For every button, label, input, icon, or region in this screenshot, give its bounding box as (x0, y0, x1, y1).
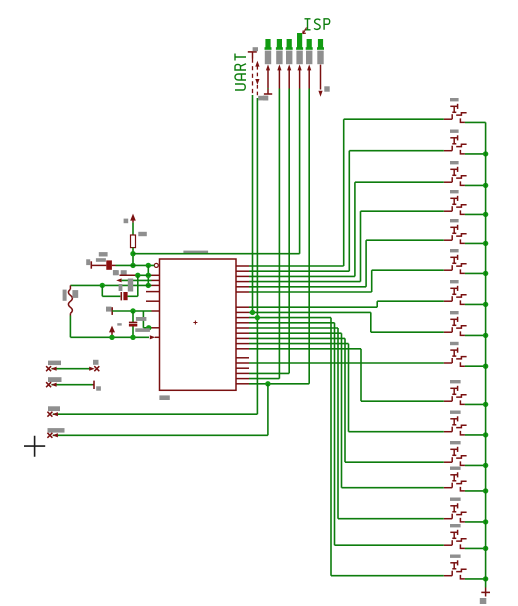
IC pin stub left (152, 284, 160, 286)
junction row4 at x102 (100, 283, 105, 288)
IC pin stub right B4 (236, 322, 249, 324)
switch S2 button (450, 137, 458, 139)
switch S10 pin 2 (460, 400, 465, 404)
label Q1 (63, 290, 67, 301)
label W1 (48, 361, 61, 366)
pin J4 direction arrow (298, 64, 302, 70)
switch S8 label (450, 311, 459, 314)
switch S5 contacts (451, 235, 453, 240)
wire IC C5 to header J2 (249, 378, 279, 380)
wire S14 to bus (465, 521, 486, 523)
IC pin stub left XTAL2 (146, 300, 160, 302)
T-bar W2 right (93, 381, 95, 389)
switch S4 pin 1 (444, 210, 452, 212)
junction C6 branch (265, 381, 270, 386)
capacitor C1 (106, 260, 112, 269)
UART pin 1 T-bar (248, 51, 257, 53)
switch S10 label (450, 380, 461, 383)
wire S4 to bus (465, 213, 486, 215)
IC pin stub right C2 (236, 362, 249, 364)
wire S12 to bus (465, 464, 486, 466)
label at UART pin 2 (258, 96, 263, 101)
wire C2 right lead (128, 295, 138, 297)
junction bus at S15 (483, 546, 488, 551)
switch S5 pin 2 (460, 239, 465, 243)
bus end pin (485, 588, 487, 597)
pin J3 direction arrow (287, 64, 291, 70)
IC pin stub right A6 (236, 291, 249, 293)
wire S10 to bus (465, 403, 486, 405)
crystal Q1 (69, 285, 71, 289)
ISP origin arrow (303, 28, 307, 34)
label at W1 right (93, 360, 99, 365)
switch S16 label (450, 555, 461, 558)
wire J1 to supply tab (267, 87, 269, 90)
label at J1 tab (263, 96, 268, 101)
wire IC B6 to switch S13 (249, 332, 342, 334)
switch S11 pin 2 (460, 431, 465, 435)
wire J5 down to IC pin PC6 (308, 89, 310, 384)
IC pin stub right C4 (236, 372, 249, 374)
switch S4 label (450, 190, 459, 193)
wire J4 down to RESET rail (299, 89, 301, 254)
IC pin stub right C6 (236, 383, 249, 385)
switch S4 pin 2 (460, 210, 465, 214)
wire IC C6 to header J5 (249, 383, 309, 385)
capacitor C2 (120, 292, 122, 300)
label pointer at C1 (113, 270, 118, 275)
switch S9 label (450, 342, 459, 345)
switch S9 pin 1 (444, 362, 452, 364)
junction bottom rail at C3 (130, 335, 135, 340)
wire C1 to IC RESET pin (116, 264, 155, 266)
switch S12 pin 1 (444, 461, 452, 463)
wire IC C4 to header J3 (249, 372, 289, 374)
switch S12 button (450, 448, 458, 450)
pin J1 direction arrow (266, 64, 270, 70)
switch S1 pin 1 (444, 118, 452, 120)
label VCC1 (124, 219, 129, 224)
label ISP (305, 19, 330, 30)
wire S16 to bus (465, 578, 486, 580)
wire S9 to bus (465, 365, 486, 367)
wire IC A6 to switch S6 (249, 291, 372, 293)
wire row3 to IC (122, 279, 152, 281)
switch S3 pin 1 (444, 181, 452, 183)
net arrow row3 (116, 278, 121, 282)
IC pin stub right B6 (236, 332, 249, 334)
switch S15 pin 1 (444, 544, 452, 546)
IC pin stub right B9 (236, 348, 249, 350)
switch S11 pin 1 (444, 431, 452, 433)
wire IC A4 to switch S4 (249, 281, 361, 283)
switch S10 contacts (451, 396, 453, 401)
junction GND row at C3 (130, 308, 135, 313)
switch S6 label (450, 249, 459, 252)
junction bus at S5 (483, 241, 488, 246)
wire RESET rail to header J4 (133, 253, 300, 255)
switch S4 button (450, 197, 458, 199)
switch S16 pin 1 (444, 575, 452, 577)
IC pin stub right A3 (236, 275, 249, 277)
switch S11 contacts (451, 427, 453, 432)
label near pin row2 b (121, 270, 127, 275)
label C1 (99, 252, 108, 256)
junction bus at S6 (483, 271, 488, 276)
switch S14 pin 1 (444, 518, 452, 520)
supply arrow VCC1 (130, 214, 136, 221)
connector pin J5 (header pin) (307, 39, 312, 48)
junction bottom rail at VCC2 (109, 335, 114, 340)
switch S13 button (450, 474, 458, 476)
ground GND1 (86, 259, 90, 265)
switch S5 button (450, 226, 458, 228)
wire IC A2 to switch S2 (249, 270, 349, 272)
junction x148 row4 (146, 283, 151, 288)
wire IC B8 to switch S11 (249, 343, 349, 345)
switch S7 contacts (451, 296, 453, 301)
switch S6 button (450, 256, 458, 258)
wire S3 to bus (465, 184, 486, 186)
wire IC A3 to switch S3 (249, 275, 355, 277)
wire bottom rail to IC (70, 336, 149, 338)
wire row2 (XTAL cap to IC) (120, 274, 138, 276)
wire IC A1 to switch S1 (249, 265, 344, 267)
pin arrow into IC bottom-left (150, 335, 155, 339)
wire IC B2 to switch S8 (249, 311, 371, 313)
wire UART2 down to flag wire W3 (256, 98, 258, 414)
junction bus at S16 (483, 576, 488, 581)
switch S2 label (450, 130, 459, 133)
switch S5 pin 1 (444, 239, 452, 241)
label W4 (48, 428, 65, 433)
switch S3 label (450, 161, 459, 164)
wire C6 branch down to flag wire W4 (267, 384, 269, 436)
switch S10 button (450, 387, 458, 389)
label VCC2 (117, 323, 121, 325)
junction UART2 on B3 (255, 315, 260, 320)
wire IC B1 to switch S7 (249, 306, 377, 308)
IC pin stub right B8 (236, 343, 249, 345)
switch S3 pin 2 (460, 181, 465, 185)
switch S11 button (450, 418, 458, 420)
switch S6 contacts (451, 265, 453, 270)
net flag W2 left (46, 382, 51, 387)
wire R1 to RESET net (132, 248, 134, 266)
label at W2 right (96, 386, 101, 390)
wire GND row to IC (112, 310, 151, 312)
pin J6 direction arrow (320, 65, 322, 90)
pin J5 direction arrow (307, 64, 311, 70)
IC pin stub right A2 (236, 270, 249, 272)
switch S14 label (450, 498, 461, 501)
UART pin 1 stem (252, 52, 254, 59)
wire S1 to bus (465, 121, 486, 123)
connector pin J1 (header pin) (265, 39, 270, 48)
junction row8 (146, 325, 151, 330)
label C2 a (119, 284, 123, 291)
connector pin J6 (header pin) (318, 39, 323, 48)
switch S16 button (450, 562, 458, 564)
wire C2 left lead (101, 285, 103, 296)
wire S11 to bus (465, 434, 486, 436)
IC pin stub right C1 (236, 357, 249, 359)
switch S5 label (450, 219, 459, 222)
junction bus at S7 (483, 302, 488, 307)
wire S7 to bus (465, 303, 486, 305)
switch S2 pin 2 (460, 150, 465, 154)
resistor R1 (131, 235, 136, 248)
switch S13 pin 2 (460, 487, 465, 491)
switch S7 pin 2 (460, 300, 465, 304)
junction bus at S9 (483, 364, 488, 369)
wire S8 to bus (465, 334, 486, 336)
wire IC B4 to switch S15 (249, 322, 335, 324)
junction bus at S8 (483, 333, 488, 338)
wire W3 (UART RX net) (53, 413, 258, 415)
switch S4 contacts (451, 206, 453, 211)
switch S14 button (450, 505, 458, 507)
wire S13 to bus (465, 490, 486, 492)
IC pin stub right B7 (236, 337, 249, 339)
switch S8 pin 1 (444, 331, 452, 333)
label UART (235, 54, 246, 91)
junction x148 row2 (146, 273, 151, 278)
label C3 value (135, 328, 150, 332)
wire S6 to bus (465, 272, 486, 274)
label Q1 value (72, 290, 78, 298)
wire common bus vertical (485, 122, 487, 587)
switch S15 pin 2 (460, 544, 465, 548)
IC pin stub right C3 (236, 367, 249, 369)
switch S1 pin 2 (460, 118, 465, 122)
switch S6 pin 2 (460, 269, 465, 273)
switch S10 pin 1 (444, 400, 452, 402)
switch S8 contacts (451, 327, 453, 332)
wire S2 to bus (465, 153, 486, 155)
wire J3 down to IC pin PC4 (288, 89, 290, 374)
IC pin stub left (152, 274, 160, 276)
wire IC B7 to switch S12 (249, 337, 345, 339)
IC pin RESET bubble (154, 263, 158, 267)
switch S15 contacts (451, 540, 453, 545)
junction bus at S3 (483, 183, 488, 188)
wire S15 to bus (465, 547, 486, 549)
label C2 b (128, 279, 133, 292)
switch S12 contacts (451, 457, 453, 462)
wire W2 (52, 384, 93, 386)
label C1 value (96, 258, 106, 262)
switch S15 label (450, 524, 461, 527)
label R1 (138, 232, 147, 236)
label at UART pin 1 (253, 47, 258, 51)
switch S11 label (450, 411, 461, 414)
switch S3 contacts (451, 177, 453, 182)
wire W1 (52, 368, 92, 370)
junction bus at S13 (483, 488, 488, 493)
IC pin stub right B1 (236, 306, 249, 308)
label W2 (48, 377, 62, 382)
wire IC B5 to switch S14 (249, 327, 338, 329)
IC pin stub right B3 (236, 317, 249, 319)
switch S1 button (450, 105, 458, 107)
switch S8 button (450, 318, 458, 320)
junction bus at S12 (483, 463, 488, 468)
capacitor C3 (132, 311, 134, 322)
switch S9 pin 2 (460, 362, 465, 366)
switch S3 button (450, 168, 458, 170)
switch S7 pin 1 (444, 300, 452, 302)
switch S1 label (450, 98, 459, 101)
label near pin row2 a (113, 270, 119, 275)
IC pin stub right B2 (236, 311, 249, 313)
wire S5 to bus (465, 242, 486, 244)
UART pin 2 up arrow (255, 61, 259, 67)
switch S2 contacts (451, 146, 453, 151)
switch S9 button (450, 349, 458, 351)
label GND flag at J6 (324, 86, 329, 91)
wire VCC1 to resistor R1 (132, 223, 134, 235)
wire UART1 down to IC pin PD0 (252, 95, 254, 312)
switch S9 contacts (451, 358, 453, 363)
IC pin stub left (152, 327, 160, 329)
junction bus at S2 (483, 151, 488, 156)
IC pin stub right A4 (236, 281, 249, 283)
wire IC B9 to switch S10 (249, 348, 361, 350)
label W3 (48, 406, 60, 411)
supply arrow VCC2 (109, 326, 115, 333)
switch S12 pin 2 (460, 461, 465, 465)
switch S8 pin 2 (460, 331, 465, 335)
label IC1 name (183, 251, 208, 255)
net flag W1 left (46, 366, 51, 371)
wire GND row branch down (142, 311, 144, 328)
switch S1 contacts (451, 114, 453, 119)
connector pin J3 (header pin) (287, 39, 292, 48)
switch S15 button (450, 531, 458, 533)
switch S14 pin 2 (460, 518, 465, 522)
wire IC B3 to switch S16 (249, 317, 331, 319)
UART pin 2 down arrow (255, 79, 259, 85)
wire row4 crystal to IC (70, 284, 151, 286)
wire W4 (net to C6) (53, 434, 268, 436)
IC pin stub right A5 (236, 286, 249, 288)
IC pin stub right C5 (236, 378, 249, 380)
net flag W3 left (47, 412, 52, 417)
label C3 (136, 317, 147, 321)
supply T-bar at J1 (264, 93, 272, 95)
IC pin stub right B5 (236, 327, 249, 329)
IC U1 origin cross (193, 321, 197, 325)
switch S14 contacts (451, 514, 453, 519)
wire IC C2 to switch S9 (249, 362, 444, 364)
junction bus at S10 (483, 402, 488, 407)
switch S12 label (450, 441, 461, 444)
IC pin stub right A1 (236, 265, 249, 267)
junction bus at S14 (483, 519, 488, 524)
junction bus at S11 (483, 432, 488, 437)
switch S13 label (450, 467, 461, 470)
junction R1 bottom (130, 263, 135, 268)
sheet origin cross (24, 436, 45, 457)
label GND2 (106, 307, 111, 312)
label IC1 value (159, 395, 169, 400)
pin J2 direction arrow (277, 64, 281, 70)
switch S16 contacts (451, 571, 453, 576)
connector pin J2 (header pin) (277, 39, 282, 48)
net flag W1 right (89, 367, 95, 371)
switch S2 pin 1 (444, 150, 452, 152)
switch S13 contacts (451, 483, 453, 488)
wire J2 down to IC pin PC5 (278, 89, 280, 379)
net flag W4 left (47, 433, 52, 438)
wire crystal bottom loop (69, 316, 71, 338)
IC U1 microcontroller body (160, 259, 237, 390)
label at bus end pin (480, 598, 487, 604)
switch S6 pin 1 (444, 269, 452, 271)
junction RESET at x148 (146, 263, 151, 268)
connector pin J4 (header pin) (297, 33, 302, 48)
junction RESET rail (130, 251, 135, 256)
switch S7 button (450, 287, 458, 289)
junction UART1 on B2 (250, 310, 255, 315)
junction row2 at x137.8 (135, 273, 140, 278)
switch S16 pin 2 (460, 575, 465, 579)
wire vertical junction column x148 (147, 265, 149, 285)
IC pin stub left (152, 310, 160, 312)
ground GND2 (111, 307, 113, 315)
wire IC A5 to switch S5 (249, 286, 366, 288)
junction bus at S4 (483, 212, 488, 217)
IC pin stub left XTAL1 (146, 291, 160, 293)
switch S13 pin 1 (444, 487, 452, 489)
switch S7 label (450, 280, 459, 283)
IC pin stub left (152, 279, 160, 281)
